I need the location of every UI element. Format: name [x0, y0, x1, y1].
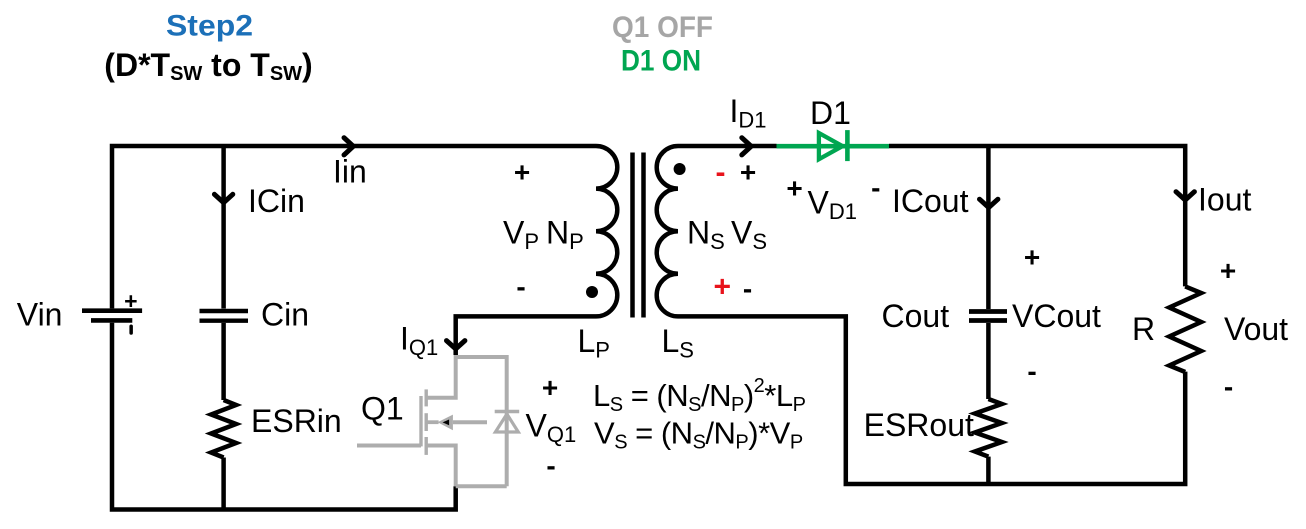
wire left rail lower + bottom-left rail + Q1 source riser	[112, 323, 456, 510]
resistor R	[1169, 286, 1201, 372]
Q1 gate bar	[419, 396, 422, 446]
svg-text:+: +	[786, 172, 802, 203]
transformer primary winding LP	[596, 146, 617, 316]
wire ESRout to bottom rail	[986, 457, 991, 484]
svg-text:+: +	[1024, 241, 1040, 272]
Q1 source link	[426, 446, 456, 487]
svg-text:+: +	[514, 156, 530, 187]
svg-text:VCout: VCout	[1012, 298, 1101, 334]
svg-text:+: +	[542, 372, 558, 403]
wire Cin branch upper	[221, 146, 226, 309]
Q1 body arrow head black core	[443, 420, 450, 426]
arrow ID1	[742, 138, 751, 155]
wire secondary top black after diode + right rail upper	[889, 146, 1185, 286]
transformer secondary winding LS	[657, 146, 678, 316]
svg-text:-: -	[1224, 371, 1233, 402]
svg-text:-: -	[516, 271, 525, 302]
arrow ICin	[214, 194, 232, 202]
svg-text:+: +	[714, 271, 732, 304]
svg-text:+: +	[124, 288, 137, 314]
svg-text:-: -	[871, 172, 880, 203]
polarity dot secondary	[674, 163, 686, 175]
resistor ESRin	[211, 400, 236, 458]
svg-text:Vout: Vout	[1224, 311, 1288, 347]
svg-text:D1 ON: D1 ON	[621, 45, 701, 78]
svg-text:-: -	[743, 273, 752, 304]
capacitor Cin	[200, 311, 249, 321]
svg-text:Iout: Iout	[1198, 182, 1251, 218]
arrow Iout	[1176, 192, 1194, 200]
svg-text:+: +	[1220, 255, 1236, 286]
Q1 gate lead	[357, 444, 421, 448]
svg-text:Iin: Iin	[333, 154, 367, 190]
arrow IQ1	[447, 341, 465, 349]
svg-text:Step2: Step2	[166, 10, 253, 43]
svg-text:Q1 OFF: Q1 OFF	[612, 11, 713, 44]
wire primary bottom to Q1 drain	[456, 316, 596, 355]
svg-text:Q1: Q1	[361, 391, 404, 427]
wire ESRin to bottom rail	[221, 458, 226, 510]
wire top-left L (left rail upper + top wire)	[112, 146, 596, 308]
Q1 body arrow line	[453, 420, 487, 424]
transistor Q1 (gray, off)	[357, 355, 507, 486]
svg-text:ESRin: ESRin	[251, 403, 342, 439]
svg-text:D1: D1	[810, 95, 851, 131]
Q1 body arrow head gray	[438, 415, 453, 431]
battery Vin	[82, 288, 142, 335]
svg-text:Cin: Cin	[261, 297, 309, 333]
arrow ICout	[980, 199, 998, 207]
resistor ESRout	[975, 399, 1002, 457]
arrow Iin	[344, 138, 353, 155]
Q1 top link to body diode	[456, 355, 507, 359]
wire bottom-right rail + secondary return	[678, 316, 1185, 484]
body diode of Q1	[495, 412, 520, 433]
polarity dot primary	[586, 286, 598, 298]
capacitor Cout	[969, 312, 1007, 321]
diode D1	[819, 130, 848, 161]
svg-text:Vin: Vin	[17, 297, 63, 333]
wire green diode net	[777, 144, 890, 149]
svg-text:Cout: Cout	[882, 298, 950, 334]
wire secondary top black before diode	[678, 144, 777, 149]
Q1 channel segment source	[425, 437, 428, 455]
svg-text:+: +	[740, 156, 756, 187]
Q1 channel segment body	[425, 413, 428, 431]
Q1 drain link	[426, 355, 456, 398]
wire Cout to ESRout	[986, 323, 991, 399]
svg-text:ICout: ICout	[892, 183, 969, 219]
transformer core	[633, 153, 644, 318]
svg-text:R: R	[1132, 311, 1155, 347]
Q1 bottom link	[456, 484, 507, 488]
wire Cout branch upper	[986, 146, 991, 309]
svg-text:-: -	[716, 156, 726, 189]
Q1 body diode wire	[505, 355, 509, 486]
svg-text:-: -	[546, 450, 555, 481]
svg-text:ESRout: ESRout	[864, 407, 974, 443]
svg-text:ICin: ICin	[248, 183, 305, 219]
wire Cin to ESRin	[221, 323, 226, 400]
svg-text:-: -	[1027, 355, 1036, 386]
Q1 body stub	[426, 420, 438, 424]
Q1 channel segment drain	[425, 389, 428, 406]
